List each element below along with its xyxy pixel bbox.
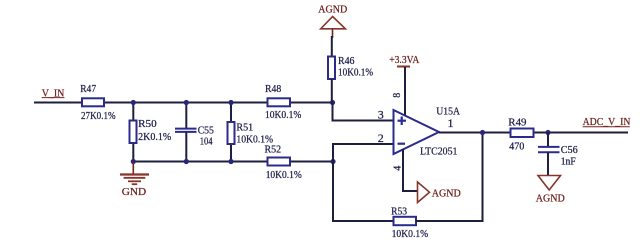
resistor R50	[130, 118, 172, 143]
wire pin 4 to AGND	[403, 149, 417, 191]
power AGND below C56	[536, 176, 565, 205]
node V_IN	[42, 87, 65, 99]
wire R51 branch vertical	[230, 103, 232, 162]
svg-text:+3.3VA: +3.3VA	[389, 54, 419, 66]
node junction lower rail / R50 / GND	[131, 159, 136, 164]
node junction lower rail / pin2 / feedback	[330, 159, 335, 164]
wire C56 branch lower	[547, 153, 549, 177]
wire C55 branch lower	[185, 132, 187, 162]
svg-text:R46: R46	[338, 55, 355, 67]
svg-text:R47: R47	[80, 83, 96, 95]
svg-text:C56: C56	[561, 144, 578, 156]
svg-text:AGND: AGND	[318, 4, 347, 16]
resistor R52	[265, 144, 302, 181]
svg-text:3: 3	[378, 108, 384, 122]
svg-text:R49: R49	[508, 116, 527, 128]
svg-text:R48: R48	[265, 83, 282, 95]
svg-text:470: 470	[509, 140, 525, 152]
node junction top rail / R51	[228, 100, 233, 105]
svg-text:10K0.1%: 10K0.1%	[266, 169, 302, 181]
wire output rail	[439, 132, 628, 134]
node junction output / C56	[545, 130, 550, 135]
resistor R49	[508, 116, 533, 152]
svg-text:LTC2051: LTC2051	[420, 146, 458, 158]
wire lower rail left of R52	[133, 161, 267, 163]
svg-text:R52: R52	[265, 144, 282, 156]
wire C55 branch upper	[185, 103, 187, 129]
node junction R48 / R46 / pin3 bend	[330, 100, 335, 105]
svg-text:R50: R50	[138, 118, 157, 130]
wire AGND to R46	[331, 36, 333, 56]
svg-text:AGND: AGND	[536, 193, 565, 205]
node junction lower rail / R51	[228, 159, 233, 164]
resistor R47	[80, 83, 115, 122]
svg-text:2: 2	[378, 131, 384, 145]
svg-text:ADC_V_IN: ADC_V_IN	[583, 116, 631, 128]
resistor R53	[391, 206, 428, 240]
wire R46 to junction	[331, 79, 333, 103]
svg-text:4: 4	[393, 166, 404, 171]
wire lower rail right of R52	[290, 161, 333, 163]
resistor R48	[265, 83, 301, 121]
svg-text:AGND: AGND	[432, 187, 461, 199]
power AGND at pin 4	[418, 182, 461, 203]
node junction output / feedback	[480, 130, 485, 135]
svg-text:8: 8	[392, 93, 403, 98]
svg-text:R51: R51	[236, 121, 253, 133]
power +3.3VA	[389, 54, 419, 66]
svg-text:10K0.1%: 10K0.1%	[392, 228, 429, 240]
svg-text:27K0.1%: 27K0.1%	[81, 110, 116, 122]
wire R50 branch vertical	[132, 103, 134, 162]
resistor R46	[328, 55, 373, 79]
wire feedback loop bottom right and up	[416, 133, 483, 222]
wire top rail from V_IN through R47 to R48	[34, 102, 333, 104]
svg-text:104: 104	[200, 135, 213, 147]
capacitor C55	[175, 125, 214, 148]
wire bend down to pin 3	[333, 103, 394, 121]
power AGND top	[318, 4, 347, 38]
svg-text:1nF: 1nF	[561, 156, 576, 168]
node junction top rail / R50	[131, 100, 136, 105]
svg-text:2K0.1%: 2K0.1%	[138, 131, 171, 143]
svg-text:R53: R53	[391, 206, 407, 218]
op-amp U15A	[394, 105, 461, 157]
node junction lower rail / C55	[184, 159, 189, 164]
ground GND	[120, 162, 149, 198]
node junction top rail / C55	[184, 100, 189, 105]
svg-text:10K0.1%: 10K0.1%	[265, 109, 301, 121]
wire bend up to pin 2	[333, 144, 394, 162]
wire feedback loop left and bottom	[333, 162, 394, 222]
resistor R51	[228, 121, 274, 145]
wire C56 branch upper	[547, 133, 549, 147]
svg-text:1: 1	[448, 116, 454, 130]
svg-text:GND: GND	[122, 186, 146, 198]
wire pin 8 supply	[404, 67, 406, 116]
capacitor C56	[538, 144, 578, 167]
node ADC_V_IN	[583, 116, 631, 128]
svg-text:10K0.1%: 10K0.1%	[338, 67, 373, 79]
